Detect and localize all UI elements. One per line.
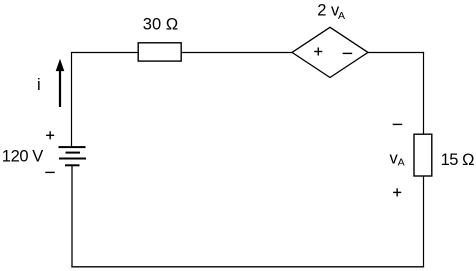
- wire: right side, upper segment: [423, 52, 425, 135]
- wire: left side, lower segment: [71, 165, 73, 267]
- wire: right side, lower segment: [423, 176, 425, 267]
- svg-text:30 Ω: 30 Ω: [143, 16, 179, 34]
- svg-text:15 Ω: 15 Ω: [441, 151, 475, 169]
- polarity − at battery bottom: [45, 172, 55, 173]
- svg-text:120 V: 120 V: [2, 148, 44, 166]
- resistor 30 ohm body: [138, 43, 181, 61]
- current arrow i (pointing up): [56, 59, 65, 107]
- svg-text:vA: vA: [390, 150, 405, 169]
- polarity + below vA: [393, 188, 401, 196]
- dependent source diamond (2 vA): [292, 27, 368, 77]
- wire: top side, middle segment: [181, 52, 292, 54]
- wire: bottom side: [71, 266, 424, 268]
- svg-text:2 vA: 2 vA: [317, 2, 345, 22]
- polarity + at battery top: [46, 131, 54, 139]
- svg-text:i: i: [37, 76, 41, 94]
- polarity − above vA: [393, 124, 403, 125]
- wire: top side, right segment: [368, 52, 424, 54]
- battery 120 V: plate 4 (short, bottom): [65, 164, 80, 166]
- battery 120 V: plate 1 (long, top): [59, 146, 86, 148]
- wire: top side, left segment: [72, 52, 139, 54]
- resistor 15 ohm body: [414, 134, 432, 176]
- battery 120 V: plate 3 (long): [59, 158, 86, 160]
- battery 120 V: plate 2 (short): [66, 152, 81, 154]
- wire: left side, upper segment: [71, 52, 73, 147]
- polarity − inside dependent source: [343, 53, 353, 54]
- polarity + inside dependent source: [314, 47, 322, 55]
